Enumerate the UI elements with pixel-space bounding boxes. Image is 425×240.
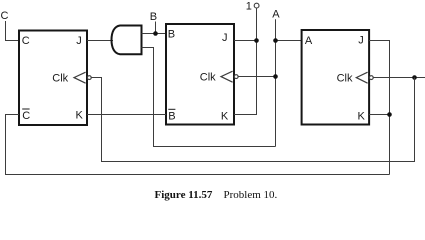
FF2 clock bubble <box>234 75 238 79</box>
junction dot: J2 on 1-line <box>254 38 259 43</box>
wire: Cbar feedback from FF1 to FF3 J/K <box>6 115 390 175</box>
svg-text:K: K <box>221 111 229 123</box>
junction dot: FF2 Clk on A line <box>273 74 278 79</box>
svg-text:B: B <box>168 28 175 40</box>
FF3 clock bubble <box>369 76 373 80</box>
flip-flop FF3 box <box>302 30 370 125</box>
svg-text:A: A <box>272 8 280 20</box>
wire: C terminal to FF1 C output <box>6 21 20 41</box>
junction dot: FF3 K on J/K vertical <box>387 112 392 117</box>
svg-text:C: C <box>22 35 30 47</box>
svg-text:J: J <box>76 35 82 47</box>
svg-text:K: K <box>75 110 83 122</box>
FF3 clock wedge <box>356 72 367 83</box>
svg-text:K: K <box>357 110 365 122</box>
svg-text:1: 1 <box>246 1 252 13</box>
svg-text:C: C <box>22 110 30 122</box>
wire: AND output to FF1 J <box>87 40 113 42</box>
flip-flop FF1 box <box>19 31 87 126</box>
svg-text:C: C <box>1 10 9 22</box>
FF1 clock bubble <box>87 76 91 80</box>
wire: logic 1 line down to FF2 K <box>234 8 257 115</box>
wire: FF1 K input to FF2 Bbar output <box>87 114 166 116</box>
wire: FF3 J tied to J/K vertical <box>369 41 390 175</box>
wire: FF2 J to logic 1 line <box>234 40 257 42</box>
junction dot: clock split <box>412 75 417 80</box>
svg-text:B: B <box>168 111 175 123</box>
wire: FF2 B output to AND top input <box>142 33 167 35</box>
svg-text:Clk: Clk <box>200 71 216 83</box>
AND gate G1 (mirrored, output left) <box>112 26 142 55</box>
FF2 clock wedge <box>221 71 233 82</box>
junction dot: A line at FF3 A wire <box>273 38 278 43</box>
svg-text:A: A <box>305 35 313 47</box>
svg-text:B: B <box>150 11 157 23</box>
wire: FF2 Clk to A line <box>238 76 276 78</box>
FF1 clock wedge <box>74 72 86 83</box>
flip-flop FF2 box <box>166 24 234 125</box>
svg-text:J: J <box>222 32 228 44</box>
svg-text:J: J <box>358 34 364 46</box>
junction dot at B node <box>153 31 158 36</box>
wire: FF3 K to J/K vertical <box>369 114 390 116</box>
wire: B terminal stub <box>155 22 157 34</box>
svg-text:Clk: Clk <box>52 72 68 84</box>
terminal circle for logic 1 <box>254 3 259 8</box>
wire: clock down and across to FF1 Clk <box>91 78 415 162</box>
wire: A vertical line <box>275 19 277 146</box>
wire: A line to FF3 A output <box>276 40 302 42</box>
wire: AND bottom input to A feedback <box>142 48 276 147</box>
wire: external clock from right edge to FF3 Clk <box>373 77 425 79</box>
svg-text:Clk: Clk <box>337 72 353 84</box>
